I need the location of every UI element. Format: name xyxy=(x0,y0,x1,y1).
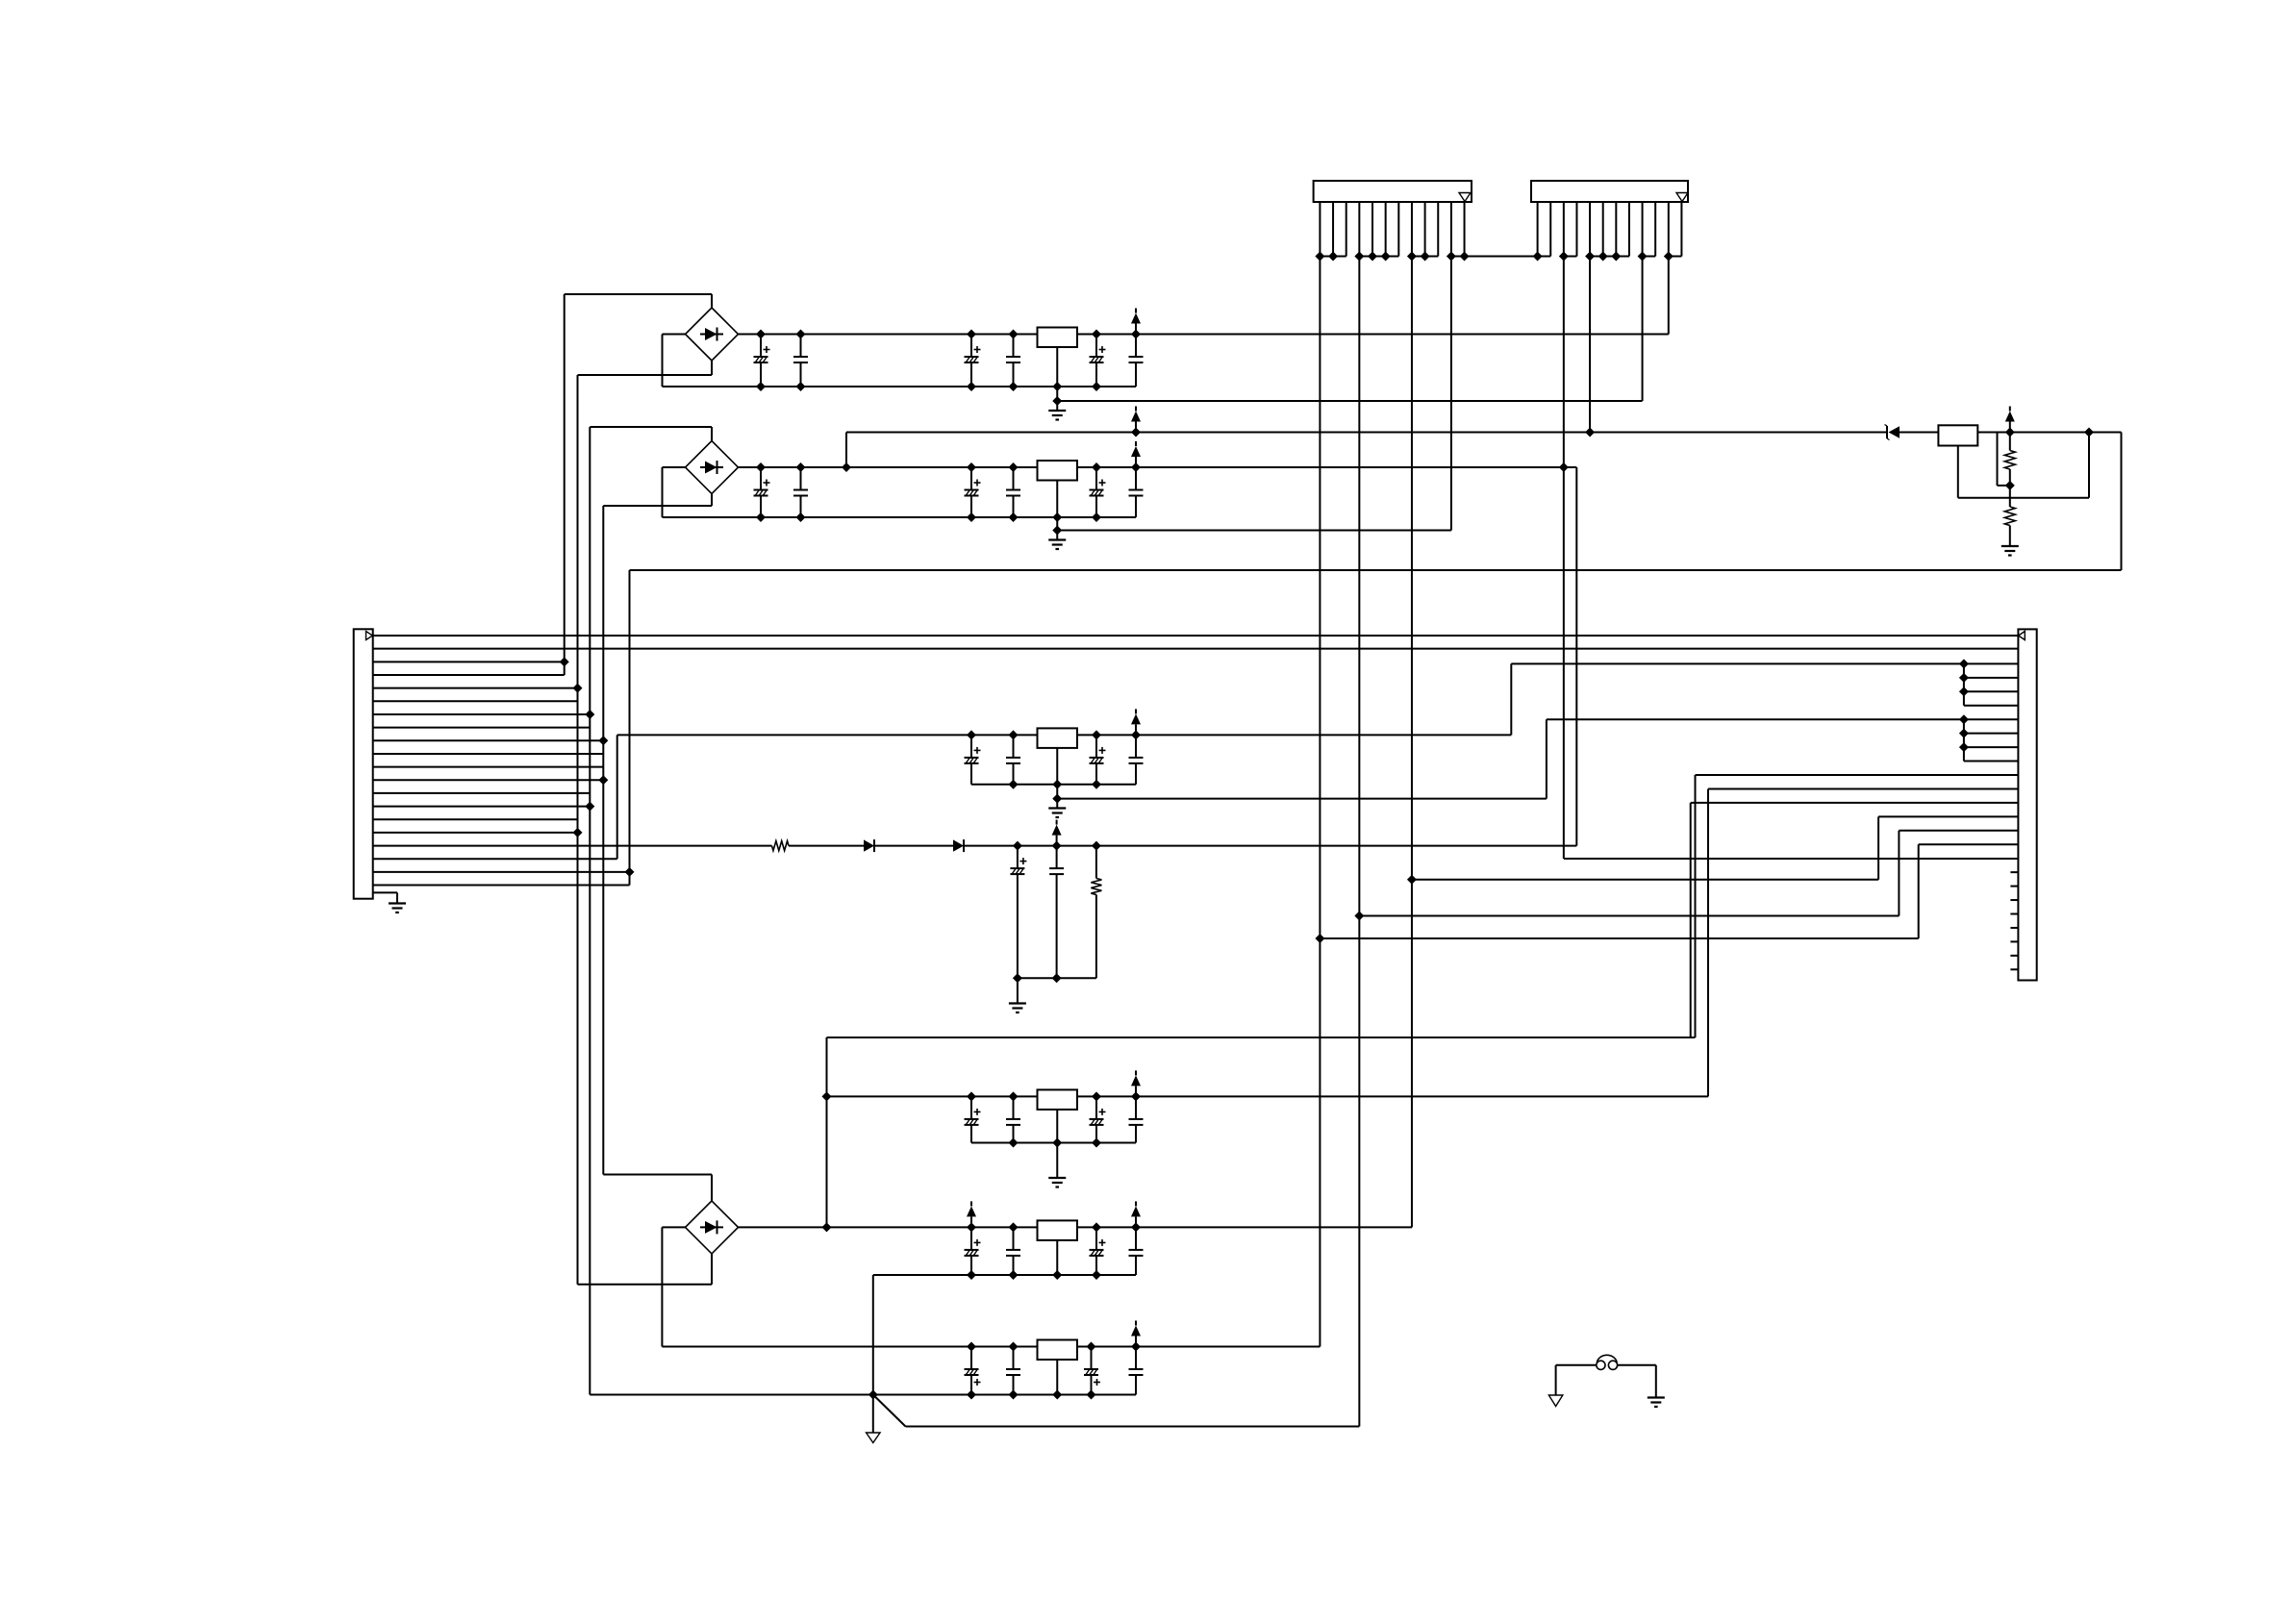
wire R1 to D3 xyxy=(789,845,864,847)
junction rail4 bottom xyxy=(1009,1138,1019,1148)
wire diode to U7 xyxy=(1900,432,1938,434)
wire D4 to rail2 riser xyxy=(964,845,1576,847)
wire CN-C pin 4 xyxy=(373,674,565,676)
wire reg4 gnd pin xyxy=(1056,1110,1058,1143)
wire CN-C pin 6 xyxy=(373,700,578,702)
junction rail2 to CN-B grp1 xyxy=(1559,462,1569,472)
junction 450-line to CN-B grp2 xyxy=(1585,428,1595,437)
junction rail4 top xyxy=(1131,1091,1141,1101)
output arrow rail3 +V xyxy=(1131,709,1141,735)
wire reg5 gnd pin xyxy=(1056,1240,1058,1275)
ground reg2 xyxy=(1048,540,1066,550)
junction CN-A bus xyxy=(1368,252,1377,262)
junction CN-A bus xyxy=(1447,252,1456,262)
output arrow rail1 +V xyxy=(1131,309,1141,335)
CN-B bus segments xyxy=(1564,256,1577,258)
capacitor C11 electrolytic (rail2) xyxy=(1090,467,1106,517)
junction rail6 bottom xyxy=(1009,1390,1019,1400)
junction rail4 left xyxy=(822,1091,832,1101)
junction CN-A bus xyxy=(1421,252,1430,262)
capacitor C26 (rail5) xyxy=(1129,1227,1144,1275)
wire: rail3 output to right connector group3 xyxy=(1136,734,1511,736)
wire to R2 xyxy=(2009,433,2011,451)
wire: merge vertical pins 3-6 xyxy=(1963,663,1965,705)
capacitor C27 electrolytic inverted (rail6) xyxy=(965,1347,981,1395)
wire reg3 gnd line xyxy=(1057,798,1547,800)
junction rail5 top xyxy=(1092,1222,1101,1232)
junction chain cap2 xyxy=(1052,841,1062,851)
resistor R3 (divider bottom) xyxy=(2004,507,2015,526)
wire fuse right leg xyxy=(1655,1365,1657,1398)
wire CN-C pin 13 xyxy=(373,792,591,794)
wire: chain jog via CN-B grp1 riser to right connector pin18 xyxy=(1564,858,2019,860)
wire vA2: CN-A grp2 down to ground collector xyxy=(1358,257,1360,1427)
wire vB1: CN-B grp1 down, jog to right-connector pin18 line xyxy=(1563,257,1565,860)
resistor R4 (bleeder) xyxy=(1095,846,1097,879)
junction rail6 bottom xyxy=(1052,1390,1062,1400)
regulator U6 (rail6 negative) xyxy=(1038,1340,1078,1361)
junction chain R4 xyxy=(1092,841,1101,851)
output arrow unregulated V xyxy=(1131,407,1141,433)
transformer connector CN-B (top right header) xyxy=(1531,181,1688,202)
junction CN-B bus xyxy=(1598,252,1608,262)
stub CN-D pin 22 xyxy=(2010,927,2018,929)
output connector CN-D (right, 27 pin) xyxy=(2018,629,2036,980)
wire bottom ground line to vA2 xyxy=(906,1426,1360,1428)
regulator U5 (rail5) xyxy=(1038,1220,1078,1240)
CN-B pin 10 lead xyxy=(1654,202,1656,257)
junction rail1 top xyxy=(1009,330,1019,339)
junction rail1 bottom xyxy=(756,382,766,391)
wire riser reg3 gnd to right connector grp7 xyxy=(1546,719,1548,798)
bridge rectifier D2 (rail2) xyxy=(686,441,739,494)
junction merge pin9 xyxy=(1959,742,1969,752)
wire: diagonal ground jog xyxy=(873,1395,906,1427)
wire: rail1 +V line xyxy=(739,334,1669,336)
junction ground collector xyxy=(868,1390,878,1400)
wire: input riser to right connector pin11 xyxy=(1695,775,1697,1037)
resistor R4 zigzag xyxy=(1091,879,1101,895)
wire CN-C pin 1 xyxy=(373,635,2019,637)
stub CN-D pin 21 xyxy=(2010,913,2018,915)
wire reg1 gnd stem xyxy=(1056,401,1058,411)
wire: rail4 output riser to right connector pin12 xyxy=(1707,788,1709,1096)
junction rail3 bottom xyxy=(1092,780,1101,789)
capacitor C23 electrolytic (rail5) xyxy=(965,1227,981,1275)
stub CN-D pin 20 xyxy=(2010,899,2018,901)
wire: rail2 unregulated branch up to 450-line xyxy=(845,433,847,468)
diode D4 (chain) xyxy=(953,839,964,852)
wire reg3 gnd to right connector pin7 xyxy=(1547,718,2018,720)
diode D3 (chain) xyxy=(864,839,874,852)
junction rail3 top xyxy=(1131,730,1141,739)
junction rail4 bottom xyxy=(1052,1138,1062,1148)
wire fuse left leg xyxy=(1555,1365,1557,1395)
CN-A pin 11 lead xyxy=(1450,202,1452,257)
ground earth xyxy=(1648,1398,1665,1408)
junction rail1 bottom xyxy=(1052,382,1062,391)
output arrow reset xyxy=(2005,407,2015,433)
capacitor C14 (rail3) xyxy=(1006,735,1020,784)
wire bank gnd stem xyxy=(1017,978,1019,1003)
reference U7 (voltage detector) xyxy=(1938,425,1977,445)
junction vA1 -V sense xyxy=(1315,934,1324,943)
capacitor C10 (rail2) xyxy=(1006,467,1020,517)
wire: reg1 ground to sub rail xyxy=(1056,387,1058,401)
junction rail1 bottom xyxy=(1009,382,1019,391)
pin-1 marker CN-D xyxy=(2019,632,2026,640)
capacitor C5 electrolytic (rail1) xyxy=(1090,335,1106,387)
wire: bridge1 AC2 to transformer xyxy=(711,361,713,375)
capacitor C8 (rail2) xyxy=(793,467,808,517)
wire pin9 row xyxy=(1964,746,2018,748)
ground reg3 xyxy=(1048,809,1066,818)
wire chain riser to rail2 +V xyxy=(1575,467,1577,846)
wire v600: transformer pins 5/6,15/16 to bridge1/bridge3 AC xyxy=(577,375,579,1285)
junction vA2 gnd sense xyxy=(1354,912,1364,921)
wire CN-C pin 5 xyxy=(373,687,578,689)
ground CN-C shield xyxy=(389,904,406,913)
junction 450-line output xyxy=(1131,428,1141,437)
wire CN-C pin 20 xyxy=(373,885,630,887)
wire reg1 gnd line to CN-B grp3 xyxy=(1057,400,1642,402)
wire vA4: CN-A grp4 down to reg2 ground line xyxy=(1450,257,1452,531)
wire: rail6 bottom (ground) xyxy=(590,1394,1136,1396)
wire CN-C pin 2 xyxy=(373,648,2019,650)
junction pin5 on v600 xyxy=(573,684,583,693)
wire: backup chain from pin17 xyxy=(373,845,772,847)
CN-A pin 12 lead xyxy=(1464,202,1466,257)
wire CN-C pin 11 xyxy=(373,766,604,768)
junction bank bottom1 xyxy=(1013,973,1022,983)
wire CN-C pin 9 xyxy=(373,739,604,741)
CN-A pin 10 lead xyxy=(1437,202,1439,257)
junction rail1 bottom xyxy=(1092,382,1101,391)
junction rail6 top xyxy=(1131,1342,1141,1352)
wire node to R3 xyxy=(2009,486,2011,507)
wire reg4 gnd stem xyxy=(1056,1143,1058,1179)
ground reg4 xyxy=(1048,1178,1066,1187)
CN-A pin 4 lead xyxy=(1358,202,1360,257)
junction rail5 bottom xyxy=(967,1270,976,1280)
wire CN-C pin 10 xyxy=(373,753,604,755)
ground reg1 xyxy=(1048,411,1066,420)
wire: U7 output xyxy=(1977,432,2010,434)
capacitor C13 electrolytic (rail3) xyxy=(965,735,981,784)
junction rail1 top xyxy=(967,330,976,339)
transformer connector CN-C (left, 20 pin) xyxy=(354,629,373,898)
junction merge pin7 xyxy=(1959,714,1969,724)
wire v613: transformer pins 7/8,13/14 to bridge2 AC1 / rail6 bottom xyxy=(589,427,591,1395)
junction divider mid xyxy=(2005,481,2015,490)
bridge rectifier D6 (rail3/5) xyxy=(686,1201,739,1254)
junction pin16 on v600 xyxy=(573,828,583,837)
junction CN-A bus xyxy=(1328,252,1338,262)
bridge rectifier D1 (rail1) xyxy=(686,308,739,361)
pin-1 marker CN-B xyxy=(1676,193,1688,202)
junction rail1 bottom xyxy=(967,382,976,391)
wire pin4 row xyxy=(1964,677,2018,679)
junction rail6 top xyxy=(1087,1342,1096,1352)
wire: U7 bottom pin loop xyxy=(1957,446,1959,498)
junction rail2 bottom xyxy=(967,512,976,522)
junction rail4 top xyxy=(1009,1091,1019,1101)
junction rail4 top xyxy=(967,1091,976,1101)
junction CN-B bus xyxy=(1638,252,1648,262)
wire: ground collector net marker xyxy=(872,1395,874,1434)
CN-A bus segments xyxy=(1320,256,1346,258)
junction rail2 top xyxy=(756,462,766,472)
CN-A pin 9 lead xyxy=(1424,202,1426,257)
capacitor C2 (rail1) xyxy=(793,335,808,387)
wire reg2 gnd pin xyxy=(1056,481,1058,518)
output arrow rail4 +V xyxy=(1131,1070,1141,1096)
junction rail3 top xyxy=(967,730,976,739)
junction merge pin4 xyxy=(1959,673,1969,683)
junction vA3 sense xyxy=(1407,875,1417,885)
junction CN-B bus xyxy=(1585,252,1595,262)
junction CN-B bus xyxy=(1559,252,1569,262)
wire CN-C pin 3 xyxy=(373,661,565,662)
wire pin10 row xyxy=(1964,761,2018,762)
wire: reg2 ground to sub rail xyxy=(1056,517,1058,531)
junction rail1 bottom xyxy=(796,382,806,391)
junction pin9 on v627 xyxy=(598,736,608,745)
junction merge pin8 xyxy=(1959,729,1969,738)
pin-1 marker CN-C xyxy=(366,632,373,640)
wire CN-C pin 7 xyxy=(373,713,591,715)
wire: bridge3 AC2 to transformer xyxy=(711,1254,713,1285)
output arrow rail5 +V xyxy=(1131,1201,1141,1227)
ground divider xyxy=(2001,546,2019,556)
wire pin8 row xyxy=(1964,733,2018,735)
junction rail2 bottom xyxy=(1009,512,1019,522)
wire: rail2 +V line xyxy=(739,466,1577,468)
CN-B pin 1 lead xyxy=(1537,202,1539,257)
output arrow rail5 raw xyxy=(967,1201,976,1227)
output arrow rail6 -V xyxy=(1131,1321,1141,1347)
junction rail5 bottom xyxy=(1052,1270,1062,1280)
CN-A pin 2 lead xyxy=(1332,202,1334,257)
junction rail6 top xyxy=(1009,1342,1019,1352)
wire: U7 out corner branch down xyxy=(1997,433,1999,486)
fuse F1 xyxy=(1556,1364,1597,1366)
stub CN-D pin 24 xyxy=(2010,955,2018,957)
junction rail5 bottom xyxy=(1009,1270,1019,1280)
wire: bridge3 AC1 to transformer xyxy=(711,1175,713,1201)
junction CN-A bus xyxy=(1460,252,1470,262)
junction CN-A bus xyxy=(1315,252,1324,262)
wire: v859 rail4/rail5 tie and input riser xyxy=(826,1037,828,1227)
capacitor C21 electrolytic (rail4) xyxy=(1090,1096,1106,1142)
junction rail1 top xyxy=(796,330,806,339)
junction rail6 bottom xyxy=(1087,1390,1096,1400)
wire CN-C pin 8 xyxy=(373,727,591,729)
wire: rail4 +V line xyxy=(827,1095,1709,1097)
pin-1 marker CN-A xyxy=(1459,193,1471,202)
capacitor C4 (rail1) xyxy=(1006,335,1020,387)
junction rail1 top xyxy=(756,330,766,339)
junction CN-B bus xyxy=(1611,252,1621,262)
wire: rail3 +V line from pin18 riser xyxy=(617,734,1136,736)
junction rail2 bottom xyxy=(1052,512,1062,522)
junction rail2 top xyxy=(796,462,806,472)
arrow chain gnd-ref xyxy=(1052,820,1062,846)
junction rail3 bottom xyxy=(1009,780,1019,789)
wire reg3 gnd pin xyxy=(1056,748,1058,785)
junction rail3 top xyxy=(1092,730,1101,739)
wire: feedback line to left connector pins 19/20 xyxy=(630,569,2122,571)
junction rail5 top xyxy=(967,1222,976,1232)
capacitor C22 (rail4) xyxy=(1129,1096,1144,1142)
wire pin6 row xyxy=(1964,705,2018,707)
CN-A pin 7 lead xyxy=(1397,202,1399,257)
CN-A pin 1 lead xyxy=(1319,202,1321,257)
wire reg2 gnd stem xyxy=(1056,531,1058,540)
wire CN-C pin 12 xyxy=(373,779,604,781)
wire reg2 gnd line to CN-A grp4 xyxy=(1057,530,1451,532)
wire: rail5 +V line xyxy=(739,1226,1412,1228)
wire R2 to node xyxy=(2009,469,2011,486)
wire vA3: CN-A grp3 down to rail5 output xyxy=(1411,257,1413,1228)
junction rail2 top xyxy=(1131,462,1141,472)
junction rail2 top xyxy=(1009,462,1019,472)
junction CN-B bus xyxy=(1664,252,1673,262)
wire: rail4 bottom xyxy=(971,1142,1136,1144)
wire: CN-C ground lug xyxy=(373,891,397,893)
capacitor C20 (rail4) xyxy=(1006,1096,1020,1142)
capacitor C28 (rail6) xyxy=(1006,1347,1020,1395)
junction rail5 top xyxy=(1131,1222,1141,1232)
capacitor C9 electrolytic (rail2) xyxy=(965,467,981,517)
wire v655 feedback down to pin20 xyxy=(629,570,631,886)
junction rail6 bottom xyxy=(967,1390,976,1400)
capacitor C30 (rail6) xyxy=(1129,1347,1144,1395)
CN-B pin 9 lead xyxy=(1642,202,1644,257)
capacitor C18 (backup) xyxy=(1049,846,1064,979)
transformer connector CN-A (top left header) xyxy=(1314,181,1472,202)
capacitor C16 (rail3) xyxy=(1129,735,1144,784)
junction rail3 bottom xyxy=(1052,780,1062,789)
CN-A pin 8 lead xyxy=(1411,202,1413,257)
CN-B pin 7 lead xyxy=(1615,202,1617,257)
junction rail2 bottom xyxy=(796,512,806,522)
stub CN-D pin 23 xyxy=(2010,940,2018,942)
capacitor C17 electrolytic (backup) xyxy=(1010,846,1026,979)
regulator U3 (rail3) xyxy=(1038,728,1078,748)
junction rail4 top xyxy=(1092,1091,1101,1101)
wire reg6 gnd pin xyxy=(1056,1360,1058,1395)
junction rail2 top xyxy=(842,462,851,472)
junction rail2 bottom xyxy=(756,512,766,522)
ground backup bank xyxy=(1009,1004,1026,1013)
junction pin12 on v627 xyxy=(598,775,608,785)
junction rail3 top xyxy=(1009,730,1019,739)
junction bank bottom2 xyxy=(1052,973,1062,983)
wire CN-C pin 16 xyxy=(373,832,578,834)
wire: rail3 bottom xyxy=(971,784,1136,786)
regulator U4 (rail4) xyxy=(1038,1089,1078,1110)
junction chain cap1 xyxy=(1013,841,1022,851)
wire: bridge2 AC2 to transformer xyxy=(711,494,713,507)
CN-B pin 5 lead xyxy=(1589,202,1591,257)
capacitor C29 electrolytic inverted (rail6) xyxy=(1084,1347,1100,1395)
wire CN-C pin 15 xyxy=(373,818,578,820)
wire: bridge3 DC- to rail6 xyxy=(662,1226,685,1228)
wire v627: transformer pins 9/10,11/12 to bridge2/bridge3 AC xyxy=(602,506,604,1175)
junction reg1 gnd xyxy=(1052,396,1062,406)
wire D3 to D4 xyxy=(874,845,953,847)
wire vB2: CN-B grp2 down to unregulated V line xyxy=(1589,257,1591,433)
capacitor C3 electrolytic (rail1) xyxy=(965,335,981,387)
CN-A pin 5 lead xyxy=(1371,202,1373,257)
junction CN-A bus xyxy=(1381,252,1391,262)
wire v642 from rail3 down to pin18 xyxy=(617,735,618,859)
CN-B pin 12 lead xyxy=(1680,202,1682,257)
wire: merge vertical pins 7-10 xyxy=(1963,719,1965,761)
net marker GND (triangle) xyxy=(867,1433,881,1443)
wire: second input riser to right connector pin14 xyxy=(1690,803,1692,1037)
capacitor C19 electrolytic (rail4) xyxy=(965,1096,981,1142)
wire R3 to ground xyxy=(2009,526,2011,547)
CN-A pin 3 lead xyxy=(1346,202,1347,257)
wire CN-C pin 19 xyxy=(373,871,630,873)
junction U7 sense xyxy=(2084,428,2094,437)
wire: reg3 ground to sub rail xyxy=(1056,785,1058,799)
wire CN-C pin 14 xyxy=(373,806,591,808)
regulator U1 (rail1) xyxy=(1038,328,1078,348)
junction pin3 on v587 xyxy=(560,657,569,666)
junction rail6 top xyxy=(967,1342,976,1352)
wire: bridge2 AC1 to transformer xyxy=(711,427,713,441)
stub CN-D pin 19 xyxy=(2010,886,2018,887)
capacitor C15 electrolytic (rail3) xyxy=(1090,735,1106,784)
wire: rail5 bottom xyxy=(873,1274,1136,1276)
junction rail2 top xyxy=(967,462,976,472)
wire vA1: CN-A grp1 down to -V rail6 output xyxy=(1319,257,1321,1347)
wire: backup bank bottom xyxy=(1018,977,1096,979)
capacitor C12 (rail2) xyxy=(1129,467,1144,517)
wire: bridge1 DC- to rail1 bottom xyxy=(663,334,686,336)
regulator U2 (rail2) xyxy=(1038,461,1078,481)
wire: rail5 bottom down to ground rail xyxy=(872,1275,874,1395)
wire pin5 row xyxy=(1964,690,2018,692)
resistor R1 (chain) xyxy=(772,841,790,851)
capacitor C24 (rail5) xyxy=(1006,1227,1020,1275)
junction rail2 top xyxy=(1092,462,1101,472)
stub CN-D pin 18 xyxy=(2010,871,2018,873)
junction merge pin3 xyxy=(1959,659,1969,668)
wire vB4: CN-B grp4 down to rail1 output xyxy=(1668,257,1670,335)
junction reg2 gnd xyxy=(1052,526,1062,536)
wire: bridge2 DC- to rail2 bottom xyxy=(663,466,686,468)
net marker chassis (triangle) xyxy=(1548,1395,1563,1407)
CN-A pin 6 lead xyxy=(1385,202,1387,257)
junction rail5 to v859 xyxy=(822,1222,832,1232)
wire reg1 gnd pin xyxy=(1056,347,1058,387)
CN-B pin 6 lead xyxy=(1602,202,1604,257)
diode D5 (reverse, on 450-line) xyxy=(1885,425,1900,440)
junction rail5 bottom xyxy=(1092,1270,1101,1280)
junction pin19 on v655 xyxy=(625,867,635,877)
capacitor C25 electrolytic (rail5) xyxy=(1090,1227,1106,1275)
wire: 450-line right end down to feedback xyxy=(2010,432,2122,434)
junction CN-A bus xyxy=(1407,252,1417,262)
junction CN-B bus xyxy=(1533,252,1543,262)
junction rail4 bottom xyxy=(1092,1138,1101,1148)
stub CN-D pin 25 xyxy=(2010,968,2018,970)
wire: bridge1 AC1 to transformer xyxy=(711,294,713,308)
